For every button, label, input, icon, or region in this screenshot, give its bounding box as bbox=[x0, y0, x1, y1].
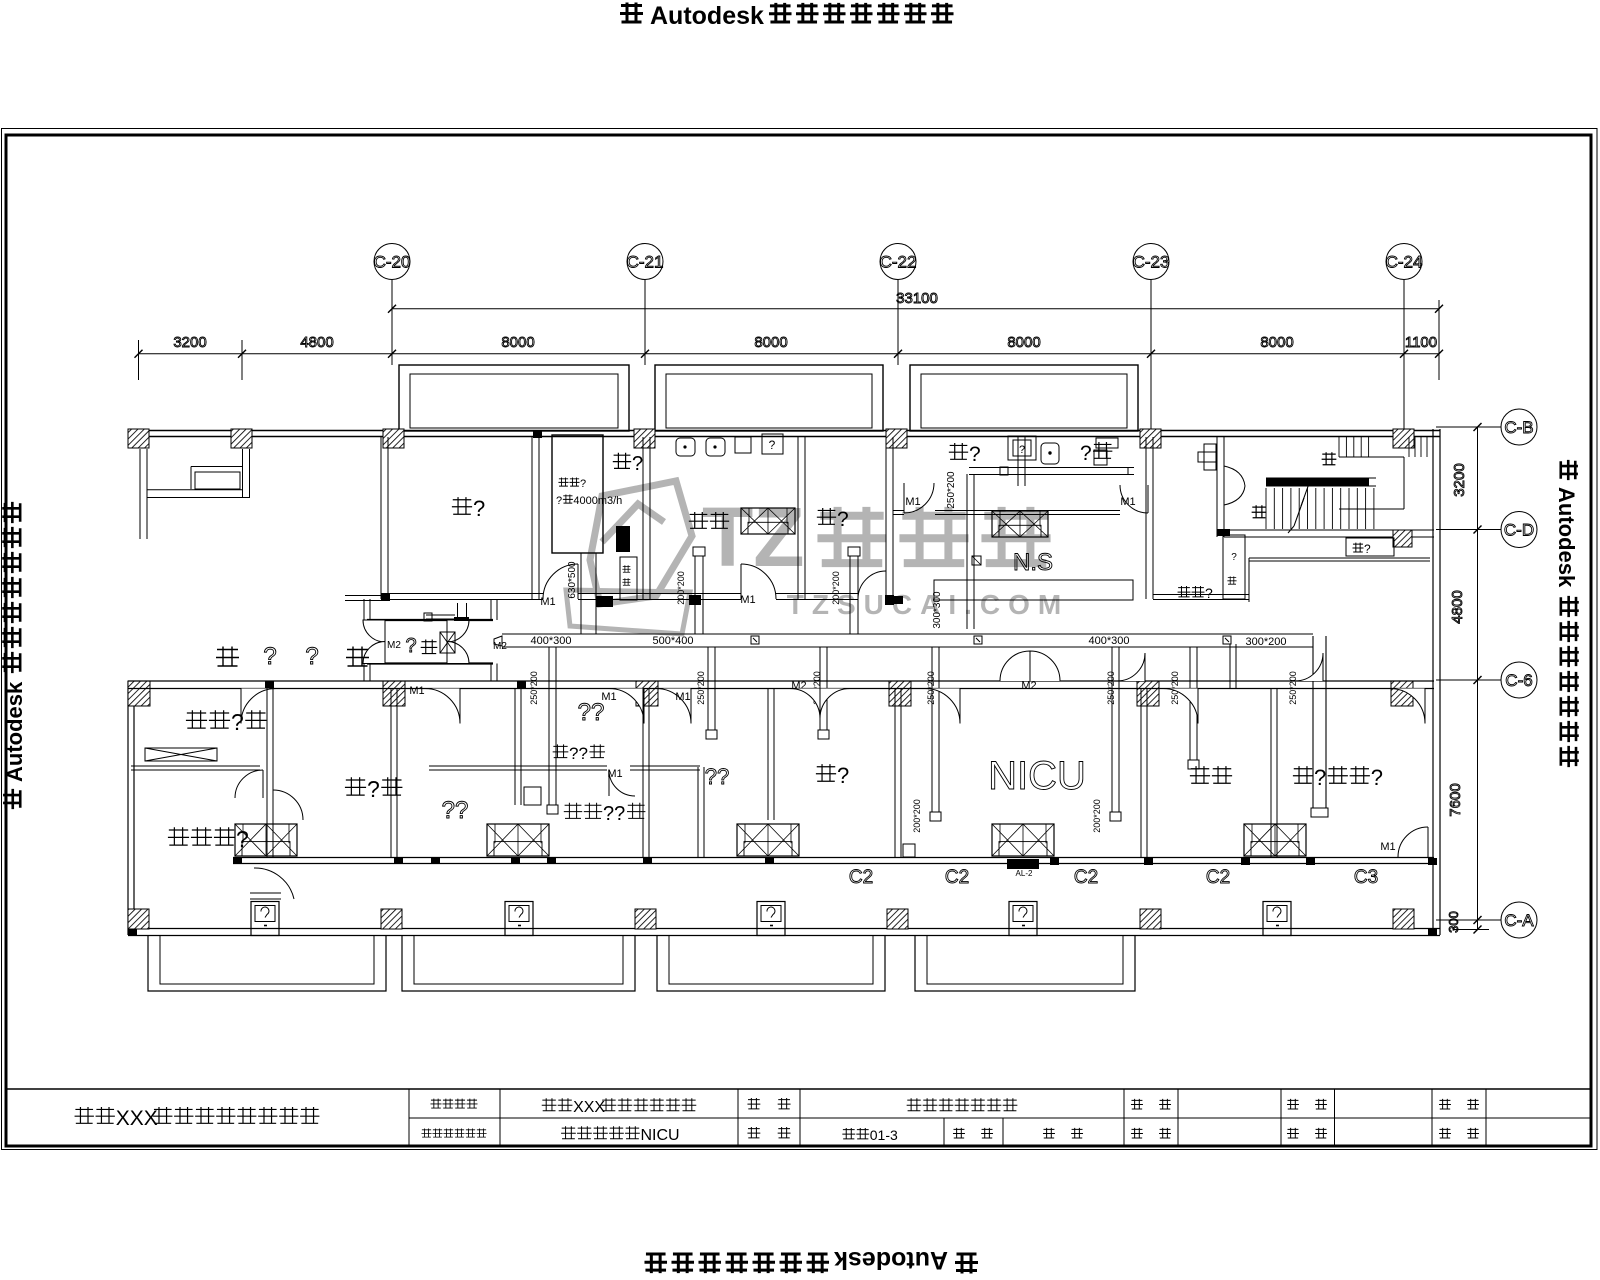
svg-text:250*200: 250*200 bbox=[529, 671, 539, 705]
svg-text:250*200: 250*200 bbox=[696, 671, 706, 705]
svg-text:8000: 8000 bbox=[754, 334, 787, 351]
svg-text:8000: 8000 bbox=[501, 334, 534, 351]
svg-text:C2: C2 bbox=[945, 867, 969, 888]
svg-text:8000: 8000 bbox=[1007, 334, 1040, 351]
svg-text:3200: 3200 bbox=[1451, 463, 1468, 496]
svg-text:N.S: N.S bbox=[1013, 549, 1053, 576]
svg-text:7600: 7600 bbox=[1447, 783, 1464, 816]
svg-text:AL-2: AL-2 bbox=[1016, 869, 1033, 878]
svg-text:?: ? bbox=[1205, 585, 1213, 601]
svg-text:?: ? bbox=[837, 508, 849, 531]
svg-text:01-3: 01-3 bbox=[870, 1127, 898, 1143]
svg-text:1100: 1100 bbox=[1405, 334, 1437, 351]
svg-text:Autodesk: Autodesk bbox=[834, 1246, 948, 1274]
svg-text:C-B: C-B bbox=[1504, 418, 1533, 437]
svg-text:C2: C2 bbox=[1206, 867, 1230, 888]
svg-text:NICU: NICU bbox=[988, 754, 1086, 798]
svg-text:?: ? bbox=[1080, 442, 1092, 465]
svg-text:C-22: C-22 bbox=[880, 253, 917, 272]
svg-text:250*200: 250*200 bbox=[1170, 671, 1180, 705]
svg-text:??: ?? bbox=[569, 744, 588, 763]
svg-text:630*500: 630*500 bbox=[567, 561, 578, 599]
svg-text:?: ? bbox=[1314, 765, 1326, 790]
svg-text:M2: M2 bbox=[493, 641, 507, 652]
svg-text:NICU: NICU bbox=[640, 1127, 679, 1144]
svg-text:M1: M1 bbox=[601, 691, 616, 703]
svg-text:200*200: 200*200 bbox=[676, 571, 686, 605]
svg-text:200*200: 200*200 bbox=[912, 799, 922, 833]
svg-text:200*200: 200*200 bbox=[1092, 799, 1102, 833]
svg-text:XXX: XXX bbox=[573, 1099, 605, 1116]
svg-text:?: ? bbox=[231, 709, 244, 735]
svg-text:?: ? bbox=[1019, 444, 1025, 456]
svg-text:250*200: 250*200 bbox=[1106, 671, 1116, 705]
svg-text:C3: C3 bbox=[1354, 867, 1378, 888]
svg-text:4800: 4800 bbox=[1449, 590, 1466, 623]
svg-text:?: ? bbox=[1231, 552, 1237, 563]
svg-text:?: ? bbox=[305, 643, 318, 670]
svg-text:?: ? bbox=[632, 453, 643, 475]
svg-text:TZ: TZ bbox=[702, 490, 805, 584]
svg-text:?: ? bbox=[837, 763, 849, 788]
svg-text:C2: C2 bbox=[1074, 867, 1098, 888]
svg-text:??: ?? bbox=[705, 764, 729, 789]
svg-text:300: 300 bbox=[1446, 911, 1461, 933]
svg-text:Autodesk: Autodesk bbox=[650, 2, 764, 30]
svg-text:?: ? bbox=[367, 776, 380, 802]
svg-text:M2: M2 bbox=[387, 640, 401, 651]
svg-text:500*400: 500*400 bbox=[653, 635, 694, 647]
svg-text:250*200: 250*200 bbox=[1288, 671, 1298, 705]
svg-text:8000: 8000 bbox=[1260, 334, 1293, 351]
svg-text:?: ? bbox=[263, 643, 276, 670]
svg-text:?: ? bbox=[580, 478, 586, 490]
svg-text:C-D: C-D bbox=[1504, 521, 1534, 540]
svg-text:??: ?? bbox=[442, 797, 469, 824]
svg-text:?: ? bbox=[556, 495, 562, 507]
svg-text:??: ?? bbox=[603, 803, 625, 825]
svg-text:C-A: C-A bbox=[1504, 911, 1534, 930]
svg-text:33100: 33100 bbox=[896, 290, 938, 307]
svg-text:250*200: 250*200 bbox=[926, 671, 936, 705]
svg-text:?: ? bbox=[1371, 765, 1383, 790]
svg-text:Autodesk: Autodesk bbox=[2, 681, 27, 782]
svg-text:?: ? bbox=[969, 443, 981, 466]
svg-text:200*200: 200*200 bbox=[831, 571, 841, 605]
svg-text:M1: M1 bbox=[1380, 841, 1395, 853]
svg-text:250*200: 250*200 bbox=[946, 471, 957, 509]
svg-text:?: ? bbox=[405, 635, 416, 657]
svg-text:?: ? bbox=[769, 438, 776, 452]
svg-text:400*300: 400*300 bbox=[1089, 635, 1130, 647]
svg-text:?: ? bbox=[1364, 542, 1371, 556]
svg-text:C-20: C-20 bbox=[374, 253, 411, 272]
svg-text:400*300: 400*300 bbox=[531, 635, 572, 647]
svg-text:?: ? bbox=[473, 496, 485, 521]
svg-text:4000m3/h: 4000m3/h bbox=[573, 495, 622, 507]
svg-text:??: ?? bbox=[578, 699, 605, 726]
svg-text:XXX: XXX bbox=[116, 1107, 158, 1130]
svg-text:M2: M2 bbox=[1021, 680, 1036, 692]
svg-text:C-24: C-24 bbox=[1386, 253, 1423, 272]
svg-text:C-23: C-23 bbox=[1133, 253, 1170, 272]
svg-text:C2: C2 bbox=[849, 867, 873, 888]
svg-text:C-21: C-21 bbox=[627, 253, 664, 272]
svg-text:C-6: C-6 bbox=[1505, 671, 1532, 690]
svg-text:M1: M1 bbox=[740, 594, 755, 606]
svg-text:?: ? bbox=[236, 826, 249, 852]
svg-text:3200: 3200 bbox=[173, 334, 206, 351]
svg-text:M1: M1 bbox=[675, 691, 690, 703]
svg-text:M1: M1 bbox=[409, 685, 424, 697]
svg-text:300*200: 300*200 bbox=[1246, 636, 1287, 648]
svg-text:4800: 4800 bbox=[300, 334, 333, 351]
svg-text:Autodesk: Autodesk bbox=[1554, 487, 1579, 588]
svg-text:M1: M1 bbox=[905, 496, 920, 508]
